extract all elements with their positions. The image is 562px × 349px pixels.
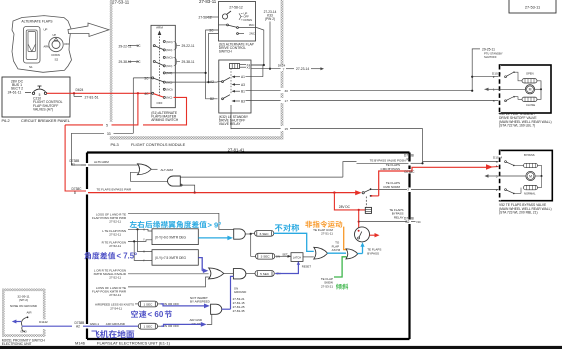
wire S2 3C down to K32 B2: [219, 24, 227, 26]
svg-text:3C: 3C: [209, 28, 214, 32]
bottom border bar: [0, 346, 562, 349]
svg-text:ELECTRONIC UNIT: ELECTRONIC UNIT: [2, 342, 32, 346]
switch S2 box: [219, 2, 256, 42]
reference tag 27-81-51 on feed wire: [73, 93, 75, 96]
svg-text:CMD BYPASS: CMD BYPASS: [381, 167, 400, 171]
svg-text:29-22-11: 29-22-11: [182, 44, 195, 48]
svg-text:X: X: [143, 250, 145, 254]
svg-text:B3: B3: [241, 99, 245, 103]
svg-text:27-52-11: 27-52-11: [109, 220, 121, 224]
OR gate invalid: [209, 268, 224, 279]
bypass switch pole and contacts: [362, 192, 364, 194]
svg-text:RELAY: RELAY: [394, 216, 404, 220]
svg-text:OPEN: OPEN: [526, 71, 534, 75]
svg-text:4C: 4C: [144, 92, 149, 96]
relay K32 box: [219, 60, 251, 113]
S2 contact 2NC: [237, 33, 239, 35]
svg-text:GROUND: GROUND: [234, 290, 246, 294]
wire S2 3NC down to K32 X1 and A1: [238, 27, 256, 29]
svg-text:28V DC: 28V DC: [339, 205, 351, 209]
reference box 27-53-11 top right: [509, 0, 556, 13]
wire PTU standby shutoff bracket: [472, 49, 480, 91]
svg-text:(NO): (NO): [166, 40, 172, 44]
module pin 33 wire exit to ALTN ARM: [114, 132, 134, 134]
wire from 24-61-11 to breaker: [25, 92, 31, 94]
svg-text:P6-3: P6-3: [111, 142, 119, 147]
svg-text:Y: Y: [143, 259, 145, 263]
toggle switch S1 handle: [28, 32, 36, 52]
svg-text:2NC: 2NC: [249, 32, 255, 36]
S1 contact upper 3C throw NC wire to S2 net: [163, 72, 165, 74]
on ground riser into AND: [231, 276, 234, 309]
orange wire UCM into big OR: [344, 227, 347, 250]
svg-text:27-23-14: 27-23-14: [296, 67, 309, 71]
svg-text:< 7.5°: < 7.5°: [117, 252, 138, 261]
svg-text:27-81-41: 27-81-41: [228, 147, 245, 152]
proximity switch symbol: [22, 318, 27, 326]
svg-text:CMD NORM: CMD NORM: [383, 185, 400, 189]
svg-text:ALTERNATE FLAPS: ALTERNATE FLAPS: [21, 19, 53, 23]
svg-text:NORMAL: NORMAL: [524, 191, 536, 195]
svg-text:AIR GROUND: AIR GROUND: [106, 322, 126, 326]
svg-text:LATCH: LATCH: [293, 256, 301, 260]
svg-text:27-83-11: 27-83-11: [199, 0, 217, 4]
svg-text:CLOSE: CLOSE: [526, 103, 535, 107]
relay K32 pin X1: [240, 63, 246, 65]
svg-text:ARMING SWITCH: ARMING SWITCH: [151, 118, 179, 122]
svg-text:1: 1: [496, 164, 498, 168]
AND gate mirrored bypass-posn: [180, 176, 343, 178]
svg-text:D738C: D738C: [405, 170, 416, 174]
svg-text:FLAP/SLAT ELECTRONICS UNIT (E1: FLAP/SLAT ELECTRONICS UNIT (E1-1): [97, 341, 171, 346]
V52 normal contact: [505, 189, 507, 191]
svg-text:DOWN: DOWN: [244, 18, 253, 22]
svg-text:PTU STANDBY: PTU STANDBY: [484, 51, 503, 55]
svg-text:A2: A2: [210, 80, 214, 84]
svg-text:27-53-11: 27-53-11: [112, 0, 130, 4]
latch output wire: [303, 256, 314, 258]
comparator X-Y greater 7.5: [152, 250, 198, 266]
svg-text:6 SEC: 6 SEC: [260, 232, 270, 236]
svg-text:5: 5: [106, 123, 108, 127]
blue stub arrow left: [14, 321, 21, 323]
OR gate UCM collector: [314, 247, 328, 259]
svg-text:27-52-11: 27-52-11: [109, 244, 121, 248]
svg-text:2: 2: [496, 188, 498, 192]
module pin 5 red wire exit: [65, 125, 86, 191]
wire 17 from K32 B3 to V51 pin 3: [246, 100, 281, 102]
svg-text:7: 7: [283, 67, 285, 71]
svg-text:2: 2: [493, 75, 495, 79]
svg-text:(NC): (NC): [166, 96, 172, 100]
svg-text:27-58-12: 27-58-12: [199, 16, 212, 20]
svg-text:3NC: 3NC: [249, 23, 255, 27]
AND gate airspeed ground: [211, 304, 222, 314]
V52 bypass contact: [505, 161, 507, 163]
V51 right bus: [537, 81, 541, 100]
cyan wire OR to big OR: [327, 252, 346, 254]
svg-text:X2: X2: [247, 66, 251, 70]
red wire 28V DC branch to relay coil: [334, 193, 365, 210]
rotary knob S2: [49, 37, 63, 51]
svg-text:ASYM: ASYM: [332, 248, 341, 252]
relay coil TE FLAPS BYPASS: [365, 207, 371, 213]
red riser to bypass relay driver: [358, 210, 360, 228]
timer 6 SEC: [251, 232, 255, 234]
svg-text:(PIN 2): (PIN 2): [265, 17, 275, 21]
svg-text:M: M: [529, 88, 532, 92]
svg-text:NC: NC: [417, 220, 422, 224]
svg-text:27-58-12: 27-58-12: [229, 6, 243, 10]
svg-text:27-51-11: 27-51-11: [321, 232, 333, 236]
svg-text:29-22-11: 29-22-11: [119, 44, 132, 48]
svg-text:TE BYPASS VALVE POSN: TE BYPASS VALVE POSN: [370, 158, 406, 162]
wire V51 pin 2: [472, 76, 499, 78]
flight controls module P6-3 right hatched border: [281, 0, 284, 65]
svg-text:A3: A3: [241, 83, 245, 87]
svg-text:7: 7: [407, 188, 409, 192]
svg-text:(NC): (NC): [166, 71, 172, 75]
big cyan annotation asym greater 9: [130, 221, 137, 228]
svg-text:S2: S2: [55, 57, 59, 61]
svg-text:27-81-35: 27-81-35: [233, 309, 245, 313]
cyan output to driver: [358, 253, 363, 255]
svg-text:UP: UP: [44, 28, 48, 32]
timer 5 SEC: [246, 273, 255, 275]
V51 close winding: [522, 97, 537, 101]
red wire CMD BYPASS to D738C and V52 pin 1: [372, 195, 379, 197]
svg-text:ALT ARM: ALT ARM: [161, 168, 174, 172]
S1 contact lower 3C throw wire to S2 net: [165, 81, 208, 83]
svg-text:TE FLAPS BYPASS PWR: TE FLAPS BYPASS PWR: [97, 187, 132, 191]
cyan wire comparator 9 output: [198, 237, 227, 239]
svg-text:3: 3: [493, 99, 495, 103]
wire S2 2NC down to K32 A2: [209, 34, 219, 83]
svg-text:SWITCH: SWITCH: [219, 50, 233, 54]
green wire skew into big OR: [334, 257, 347, 277]
wire TE FLAPS CMD NORM to pin 7 and V52 pin 2: [372, 189, 408, 191]
svg-text:ALTN ARM: ALTN ARM: [94, 160, 109, 164]
svg-text:VALVES (A7): VALVES (A7): [33, 108, 53, 112]
S1 arming direction arrow: [159, 34, 161, 96]
bracket to 29-38-11 right: [174, 57, 177, 65]
circuit breaker panel P6-2 box: [2, 77, 70, 117]
svg-text:3C: 3C: [144, 77, 149, 81]
svg-text:24-61-11: 24-61-11: [8, 91, 22, 95]
svg-text:SHUTOFF: SHUTOFF: [484, 55, 497, 59]
blue annotation fei ji zai di mian: [91, 330, 99, 338]
cyan control arrow into driver: [362, 247, 364, 254]
svg-text:OFF: OFF: [157, 101, 163, 105]
flight controls module P6-3 bottom hatched border: [110, 136, 284, 139]
svg-text:|X-Y|>9.0 XMTR DEG: |X-Y|>9.0 XMTR DEG: [155, 236, 186, 240]
blue output riser on ground: [222, 308, 231, 310]
svg-text:(STA 723 WL 200 RBL 21): (STA 723 WL 200 RBL 21): [499, 211, 538, 215]
svg-text:ARM: ARM: [44, 45, 50, 49]
svg-text:D1142: D1142: [39, 320, 48, 324]
bracket to 29-22-11 right: [174, 42, 177, 50]
OR gate alt arm: [138, 164, 152, 175]
wire 30 from K32 B1 to V51: [246, 90, 281, 92]
timer 1 SEC first: [138, 301, 157, 307]
big OR gate TE FLAPS BYPASS: [346, 249, 358, 259]
svg-text:27-54-11: 27-54-11: [110, 306, 122, 310]
blue wire ground to AND gate: [158, 325, 161, 327]
svg-text:33: 33: [107, 132, 111, 136]
red junction on 4C feed: [137, 92, 139, 94]
svg-text:K1: K1: [407, 158, 411, 162]
red TE FLAPS BYPASS PWR bus: [88, 192, 357, 194]
V52 motor: [486, 175, 500, 177]
svg-text:2C: 2C: [136, 60, 141, 64]
svg-text:(NC): (NC): [166, 64, 172, 68]
svg-text:(SH 2): (SH 2): [19, 298, 28, 302]
wire TE BYPASS VALVE POSN to pin K1: [357, 162, 409, 164]
svg-text:ARM: ARM: [156, 26, 163, 30]
svg-text:< 60: < 60: [148, 310, 164, 319]
svg-text:UP: UP: [53, 33, 57, 37]
svg-text:B1: B1: [241, 90, 245, 94]
svg-text:AIR: AIR: [27, 311, 33, 315]
branch to 3 SEC timer: [251, 234, 256, 256]
S2 toggle symbol: [222, 14, 227, 19]
svg-text:M146: M146: [75, 341, 86, 346]
blue wire airspeed to AND gate: [158, 303, 161, 305]
relay K32 coil: [230, 64, 240, 69]
proximity switch electronic unit box hatched: [2, 289, 46, 292]
svg-text:27-81-51: 27-81-51: [85, 95, 99, 99]
svg-text:Y: Y: [143, 238, 145, 242]
svg-text:VALVE RELAY: VALVE RELAY: [219, 122, 241, 126]
svg-text:27-52-11: 27-52-11: [109, 232, 121, 236]
svg-text:RESET: RESET: [302, 265, 312, 269]
svg-text:BYPASS: BYPASS: [367, 252, 379, 256]
svg-text:30: 30: [285, 89, 289, 93]
callout arrow from panel to module: [68, 23, 109, 37]
cyan wire 6 SEC to OR gate: [274, 233, 314, 251]
svg-text:BY AIRSPEED: BY AIRSPEED: [190, 300, 211, 304]
cyan label bu dui chen: [275, 224, 283, 231]
valve V51 box: [500, 65, 552, 113]
V51 close contact: [505, 100, 507, 102]
svg-text:NOSE ON GROUND: NOSE ON GROUND: [10, 304, 37, 308]
blue annotation kong su less 60: [131, 310, 138, 317]
svg-text:27-52-11: 27-52-11: [109, 293, 121, 297]
red wire TE FLAPS BYPASS PWR loop: [112, 93, 138, 125]
svg-text:(NO): (NO): [166, 56, 172, 60]
dashed link switch to coil: [365, 197, 367, 208]
flight controls module P6-3 left hatched border: [110, 0, 113, 122]
bypass relay driver circle: [355, 227, 370, 242]
svg-text:5 SEC: 5 SEC: [260, 272, 270, 276]
red 28V DC feed wire from breaker to S1 4C: [47, 92, 151, 94]
svg-text:B1: B1: [71, 163, 75, 167]
svg-text:29-25-11: 29-25-11: [482, 47, 495, 51]
svg-text:1 SEC: 1 SEC: [143, 325, 153, 329]
relay K32 pin X2: [240, 66, 246, 68]
svg-text:17: 17: [285, 99, 289, 103]
AND gate invalid and on ground: [224, 272, 234, 274]
wire TE FLAPS BYPASS RELAY to pin B2: [359, 221, 407, 223]
blue annotation angle diff less 7.5: [84, 252, 91, 259]
V51 open contact: [505, 76, 507, 78]
wire V52 pin 3: [423, 161, 500, 163]
V52 normal winding: [524, 185, 538, 189]
svg-text:3 SEC: 3 SEC: [261, 255, 271, 259]
wire S1 3C pole to pin 33: [133, 77, 151, 79]
AND gate asym power: [234, 229, 246, 239]
svg-text:A1: A1: [241, 75, 245, 79]
svg-text:B2: B2: [210, 97, 214, 101]
svg-text:A2: A2: [76, 325, 80, 329]
toggle switch S1 bezel: [24, 27, 41, 64]
blue wire comparator 7.5 output to OR invalid: [198, 258, 202, 271]
svg-text:29-38-11: 29-38-11: [182, 60, 195, 64]
svg-text:M: M: [529, 174, 532, 178]
red output arrow from driver: [370, 234, 375, 236]
svg-text:(NC): (NC): [166, 48, 172, 52]
orange label fei zhi ling yun dong: [305, 221, 312, 228]
svg-text:(NO): (NO): [166, 88, 172, 92]
svg-text:29-38-11: 29-38-11: [119, 60, 132, 64]
svg-text:D1014: D1014: [493, 156, 502, 160]
svg-text:ON OR OFF: ON OR OFF: [163, 302, 180, 306]
svg-text:B2: B2: [406, 220, 410, 224]
svg-text:CIRCUIT BREAKER PANEL: CIRCUIT BREAKER PANEL: [21, 118, 71, 123]
svg-text:15: 15: [285, 127, 289, 131]
svg-text:S1: S1: [29, 65, 33, 69]
relay K32 linkage dashed: [230, 68, 232, 94]
gate bottom input from air gnd: [207, 314, 212, 324]
blue wire 5 SEC to latch reset: [275, 262, 298, 274]
valve V52 box: [500, 150, 553, 200]
svg-text:FLIGHT CONTROLS MODULE: FLIGHT CONTROLS MODULE: [131, 142, 186, 147]
svg-text:> 9°: > 9°: [208, 220, 222, 229]
svg-text:(STA 722 WL 169 LBL 7): (STA 722 WL 169 LBL 7): [499, 124, 535, 128]
svg-text:P6-2: P6-2: [2, 118, 10, 123]
alternate flaps control panel outline: [12, 16, 72, 73]
circuit breaker C210: [32, 92, 34, 94]
timer 1 SEC second: [138, 323, 157, 329]
svg-text:OFF: OFF: [64, 42, 70, 46]
svg-text:|X-Y|>7.5 XMTR DEG: |X-Y|>7.5 XMTR DEG: [155, 256, 186, 260]
svg-text:27-53-11: 27-53-11: [525, 5, 540, 10]
switch S1 box: [151, 25, 175, 107]
svg-text:27-52-11: 27-52-11: [109, 276, 121, 280]
reference 27-58-12 wire into S2: [207, 16, 219, 18]
svg-text:D624: D624: [76, 88, 84, 92]
green label qing xie: [336, 284, 342, 290]
V51 open winding: [522, 79, 537, 83]
V52 bypass winding: [524, 163, 538, 167]
latch box: [291, 253, 303, 262]
svg-text:27-53-21: 27-53-21: [321, 284, 333, 288]
svg-text:GND-1: GND-1: [90, 322, 100, 326]
svg-text:BYPASS: BYPASS: [524, 153, 535, 157]
svg-text:SET: SET: [282, 252, 288, 256]
svg-text:1 SEC: 1 SEC: [143, 302, 153, 306]
wire 15 TE bypass valve posn from module to E1-1 K1 and V52 pin 3: [231, 105, 281, 129]
svg-text:GND: GND: [20, 329, 26, 333]
red arrow into bypass switch: [355, 190, 362, 195]
flap slat electronics unit E1-1 box: [87, 153, 410, 340]
svg-text:8: 8: [74, 191, 76, 195]
taps to comparator 7.5: [138, 229, 153, 251]
V51 motor: [485, 88, 500, 90]
